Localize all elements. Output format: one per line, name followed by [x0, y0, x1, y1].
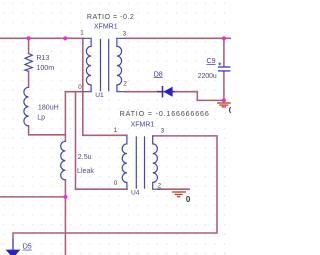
svg-text:Lleak: Lleak [77, 167, 94, 175]
svg-text:180uH: 180uH [38, 104, 59, 112]
svg-text:0: 0 [229, 106, 231, 115]
svg-text:R13: R13 [36, 54, 49, 62]
svg-text:3: 3 [161, 127, 165, 134]
svg-text:1: 1 [80, 29, 84, 36]
svg-text:100m: 100m [36, 64, 54, 72]
svg-text:2.5u: 2.5u [78, 153, 92, 161]
svg-text:XFMR1: XFMR1 [94, 24, 118, 31]
svg-text:2: 2 [158, 182, 162, 189]
svg-text:0: 0 [78, 84, 82, 91]
svg-text:3: 3 [123, 30, 127, 37]
svg-text:XFMR1: XFMR1 [131, 121, 155, 128]
svg-text:1: 1 [114, 127, 118, 134]
svg-text:D8: D8 [154, 70, 163, 78]
svg-text:2200u: 2200u [198, 72, 217, 80]
svg-text:0: 0 [186, 195, 191, 204]
svg-text:0: 0 [114, 180, 118, 187]
svg-text:RATIO = -0.2: RATIO = -0.2 [87, 13, 134, 21]
svg-text:U4: U4 [131, 189, 140, 196]
svg-text:RATIO = -0.166666666: RATIO = -0.166666666 [120, 110, 210, 118]
svg-text:U1: U1 [95, 92, 104, 99]
svg-text:C9: C9 [207, 57, 216, 65]
svg-text:D5: D5 [23, 243, 32, 251]
svg-text:2: 2 [123, 81, 127, 88]
svg-text:Lp: Lp [37, 113, 45, 121]
